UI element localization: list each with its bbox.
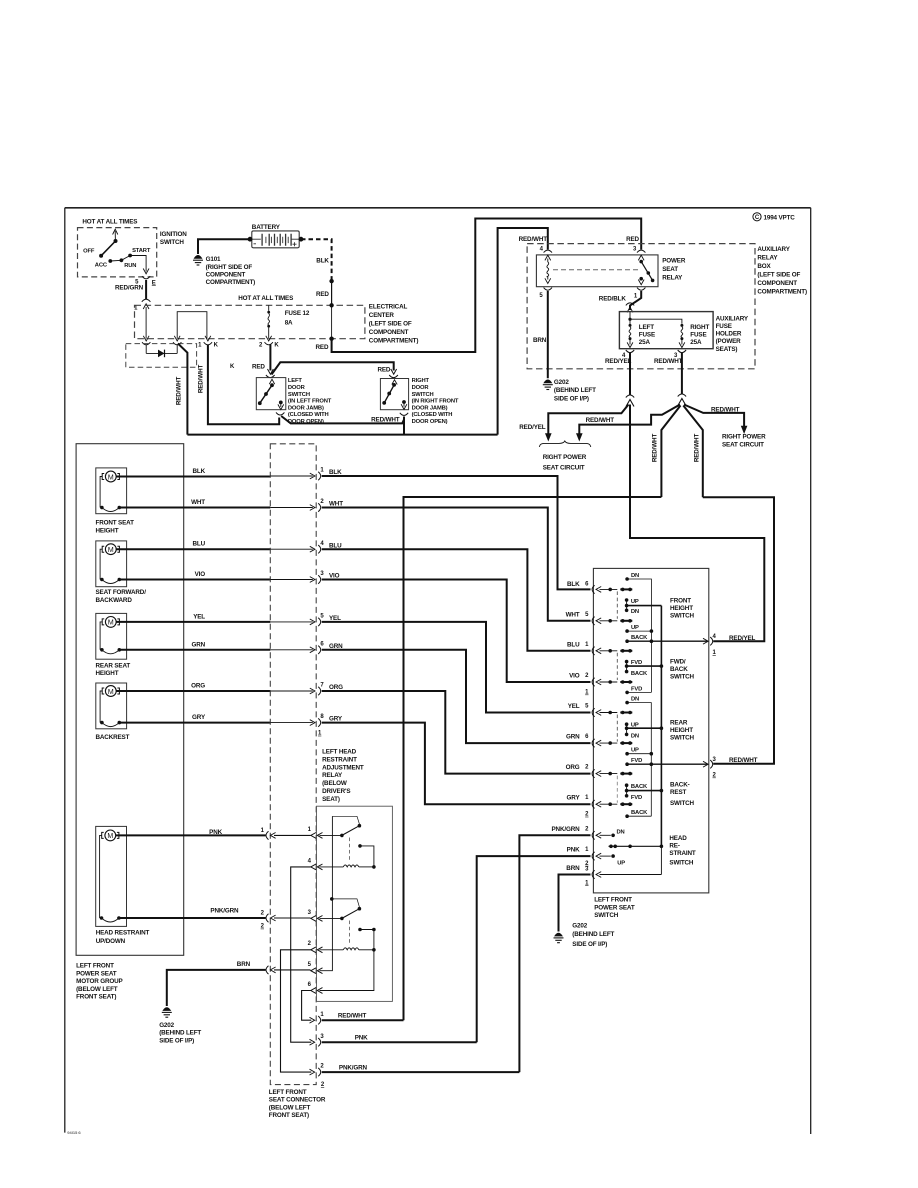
svg-text:SWITCH: SWITCH [160, 239, 185, 246]
relay pin 3 connector [308, 910, 323, 922]
connector row 7 ORG [270, 683, 590, 774]
right fuse output connector [678, 350, 686, 353]
svg-text:BACK: BACK [631, 671, 648, 677]
wire into diode module right [176, 345, 178, 354]
relay pin 2 connector [308, 941, 323, 953]
svg-text:CENTER: CENTER [369, 312, 395, 319]
svg-text:BOX: BOX [757, 263, 771, 270]
svg-text:7: 7 [320, 683, 324, 689]
svg-text:UP: UP [631, 748, 639, 754]
seat connector output pin 2 PNK/GRN [310, 1064, 520, 1089]
svg-text:E: E [152, 280, 156, 286]
EC exit connector (diode feed 2) [174, 336, 180, 341]
svg-text:LEFT HEAD: LEFT HEAD [322, 749, 357, 756]
svg-text:RED/WHT: RED/WHT [371, 416, 400, 423]
svg-text:FVD: FVD [631, 795, 642, 801]
svg-text:3: 3 [308, 910, 312, 916]
svg-text:RED/YEL: RED/YEL [519, 424, 546, 431]
svg-text:WHT: WHT [191, 499, 205, 506]
svg-text:2: 2 [585, 826, 589, 832]
svg-text:HOLDER: HOLDER [716, 331, 742, 338]
svg-text:START: START [132, 248, 151, 254]
wire BLK battery positive (dashed) [301, 239, 332, 279]
svg-text:2: 2 [261, 910, 265, 916]
svg-text:3: 3 [713, 757, 717, 763]
svg-text:LEFT FRONT: LEFT FRONT [76, 963, 114, 970]
wire RED 2K to left door switch [269, 345, 271, 371]
svg-text:M: M [108, 547, 114, 554]
switch pin 4 RED/YEL output [703, 634, 756, 656]
svg-text:UP: UP [617, 861, 625, 867]
svg-text:SIDE OF I/P): SIDE OF I/P) [572, 941, 607, 948]
backrest switch internals [617, 776, 694, 818]
wire VIO motor M2 [119, 579, 270, 581]
svg-text:SWITCH: SWITCH [412, 392, 434, 398]
svg-text:SEAT CONNECTOR: SEAT CONNECTOR [269, 1097, 326, 1104]
svg-text:(POWER: (POWER [716, 338, 742, 345]
thick feed bus front/rear [660, 606, 662, 847]
wire RED/BLK relay pin 1 to fuse holder [630, 291, 641, 310]
svg-text:4: 4 [308, 858, 312, 864]
page frame left border [64, 208, 66, 1133]
wire RED/WHT branch 3 riser [683, 406, 703, 498]
relay pin 1 connector [308, 827, 323, 839]
svg-text:GRN: GRN [566, 734, 580, 741]
svg-text:RIGHT: RIGHT [690, 324, 709, 331]
svg-text:RED: RED [377, 367, 390, 374]
svg-text:(BEHIND LEFT: (BEHIND LEFT [554, 387, 596, 394]
svg-text:GRY: GRY [567, 795, 581, 802]
svg-text:PNK/GRN: PNK/GRN [210, 908, 239, 915]
wire BLU motor M2 [116, 548, 270, 550]
diode D1 [146, 350, 177, 358]
switch pin 5 YEL [568, 703, 633, 717]
svg-text:G202: G202 [572, 922, 587, 929]
left door switch [256, 378, 286, 410]
svg-text:2: 2 [585, 765, 589, 771]
svg-text:MOTOR GROUP: MOTOR GROUP [76, 978, 123, 985]
svg-text:ACC: ACC [95, 263, 108, 269]
svg-text:FRONT SEAT): FRONT SEAT) [269, 1112, 309, 1119]
svg-text:M: M [108, 474, 114, 481]
wire RED feed riser to power seat relay pin 3 [332, 219, 642, 353]
svg-text:2: 2 [308, 941, 312, 947]
svg-text:2: 2 [320, 499, 324, 505]
svg-text:COMPARTMENT): COMPARTMENT) [206, 279, 256, 286]
svg-text:(BEHIND LEFT: (BEHIND LEFT [159, 1030, 201, 1037]
svg-text:1: 1 [308, 827, 312, 833]
svg-text:(BELOW LEFT: (BELOW LEFT [269, 1104, 311, 1111]
svg-text:2: 2 [713, 773, 717, 779]
svg-text:(RIGHT SIDE OF: (RIGHT SIDE OF [206, 264, 253, 271]
svg-text:RED/YEL: RED/YEL [729, 635, 756, 642]
svg-text:UP: UP [631, 625, 639, 631]
left front power seat switch box [593, 568, 708, 919]
connector row 5 YEL [270, 614, 590, 713]
svg-text:5: 5 [320, 614, 324, 620]
wire RED tee to right door switch [272, 362, 394, 374]
svg-text:5: 5 [585, 704, 589, 710]
ground G202 seat motors [159, 1008, 201, 1045]
svg-text:SEAT): SEAT) [322, 796, 340, 803]
switch pin 1 GRY [567, 795, 633, 818]
svg-text:6: 6 [320, 641, 324, 647]
svg-text:1: 1 [318, 731, 322, 737]
wire into diode module left [145, 345, 147, 354]
switch pin 2 PNK/GRN [552, 826, 625, 840]
wire right door switch to RED/WHT long run [403, 417, 405, 435]
wire RED/WHT branch 1 to right power seat circuit arrow [579, 405, 680, 434]
relay armature link (dashed) [553, 269, 640, 271]
svg-text:DOOR OPEN): DOOR OPEN) [412, 419, 448, 425]
svg-text:(CLOSED WITH: (CLOSED WITH [412, 412, 453, 418]
motor M4 backrest [96, 683, 130, 741]
svg-text:RED/WHT: RED/WHT [711, 406, 740, 413]
wire RED/WHT riser from pin 1 K [208, 345, 279, 425]
auxiliary relay box [527, 244, 807, 369]
svg-text:FRONT: FRONT [670, 597, 691, 604]
svg-text:4: 4 [320, 541, 324, 547]
front height switch internals [617, 573, 707, 692]
svg-text:25A: 25A [690, 339, 702, 346]
svg-text:RELAY: RELAY [757, 254, 778, 261]
svg-text:SEAT CIRCUIT: SEAT CIRCUIT [722, 441, 764, 448]
svg-text:RED/WHT: RED/WHT [654, 358, 683, 365]
svg-text:BACK: BACK [631, 784, 648, 790]
wire RED/WHT link to switch pin 3 [703, 497, 774, 764]
wire PNK motor M5 [116, 834, 266, 836]
switch pin 3 BRN [566, 846, 661, 886]
svg-text:ELECTRICAL: ELECTRICAL [369, 303, 408, 310]
svg-text:ADJUSTMENT: ADJUSTMENT [322, 764, 364, 771]
svg-text:AUXILIARY: AUXILIARY [716, 315, 749, 322]
relay pin 5 connector [308, 962, 323, 974]
svg-text:HEIGHT: HEIGHT [96, 670, 119, 677]
relay pin 1 connector [637, 288, 645, 291]
switch pin 3 RED/WHT output [703, 757, 758, 779]
svg-text:1: 1 [585, 795, 589, 801]
motor M1 front seat height [96, 468, 135, 534]
svg-text:HEIGHT: HEIGHT [670, 605, 693, 612]
switch pin 2 VIO [569, 673, 632, 696]
svg-text:DOOR JAMB): DOOR JAMB) [288, 405, 324, 411]
svg-text:OFF: OFF [83, 248, 95, 254]
connector row 1 BLK [270, 468, 590, 590]
svg-text:1: 1 [713, 650, 717, 656]
svg-text:SWITCH: SWITCH [670, 735, 695, 742]
svg-text:RED: RED [252, 364, 265, 371]
svg-text:HEIGHT: HEIGHT [96, 527, 119, 534]
svg-text:ORG: ORG [191, 683, 205, 690]
svg-text:C: C [755, 215, 760, 221]
connector PNK at seat connector left edge [261, 828, 311, 840]
svg-text:SWITCH: SWITCH [594, 912, 619, 919]
wire relay pin 6 riser to seat connector pin 1 [302, 991, 312, 1021]
svg-text:1: 1 [261, 828, 265, 834]
seat connector output pin 1 RED/WHT [310, 1012, 404, 1025]
svg-text:FVD: FVD [631, 686, 642, 692]
svg-text:RED/WHT: RED/WHT [198, 365, 205, 394]
svg-text:LEFT: LEFT [639, 324, 654, 331]
wire RED/YEL branch to right power seat circuit arrow [548, 405, 628, 434]
svg-text:SWITCH: SWITCH [670, 800, 695, 807]
svg-text:G202: G202 [159, 1022, 174, 1029]
svg-text:RED/YEL: RED/YEL [605, 358, 632, 365]
connector row 6 GRN [270, 641, 590, 743]
svg-text:VIO: VIO [195, 571, 206, 578]
svg-text:RED/WHT: RED/WHT [176, 377, 183, 406]
page frame right border [810, 208, 812, 1134]
svg-text:SIDE OF I/P): SIDE OF I/P) [159, 1037, 194, 1044]
svg-text:BACKWARD: BACKWARD [96, 597, 133, 604]
svg-text:FUSE 12: FUSE 12 [285, 310, 310, 317]
svg-text:ORG: ORG [566, 764, 580, 771]
diode module box [126, 344, 197, 368]
svg-text:DRIVER'S: DRIVER'S [322, 788, 350, 795]
wire RED/WHT right fuse down to splice connector [681, 353, 683, 395]
wire BLK motor M1 [116, 476, 270, 478]
wire GRY motor M4 [119, 722, 270, 724]
svg-text:BRN: BRN [237, 961, 251, 968]
svg-text:LEFT FRONT: LEFT FRONT [269, 1089, 307, 1096]
svg-text:RED/WHT: RED/WHT [729, 757, 758, 764]
EC exit connector pin 2 K [266, 336, 272, 341]
svg-text:RESTRAINT: RESTRAINT [322, 756, 357, 763]
svg-text:5: 5 [539, 293, 543, 299]
svg-text:1: 1 [198, 342, 202, 348]
svg-text:1: 1 [634, 293, 638, 299]
svg-text:5: 5 [308, 962, 312, 968]
svg-text:DN: DN [631, 609, 639, 615]
wire RED/WHT feed riser to power seat relay pin 4 [498, 228, 548, 435]
svg-text:1: 1 [585, 847, 589, 853]
svg-text:6: 6 [308, 982, 312, 988]
svg-text:RED/WHT: RED/WHT [693, 434, 700, 463]
svg-text:6: 6 [585, 734, 589, 740]
svg-text:FUSE: FUSE [716, 323, 732, 330]
svg-text:3: 3 [585, 867, 589, 873]
svg-text:FRONT SEAT: FRONT SEAT [96, 519, 135, 526]
svg-text:RED/WHT: RED/WHT [338, 1013, 367, 1020]
svg-text:REAR: REAR [670, 720, 688, 727]
svg-text:PNK: PNK [355, 1035, 368, 1042]
wire WHT motor M1 [119, 507, 270, 509]
left door switch bottom connector [276, 412, 284, 415]
svg-text:HEAD: HEAD [669, 835, 687, 842]
svg-text:2: 2 [585, 673, 589, 679]
svg-text:RELAY: RELAY [322, 772, 343, 779]
relay switch 2 [320, 897, 376, 950]
svg-text:UP/DOWN: UP/DOWN [96, 938, 126, 945]
svg-text:REST: REST [670, 789, 686, 796]
svg-text:3: 3 [320, 571, 324, 577]
svg-text:2: 2 [320, 1064, 324, 1070]
wire PNK riser to switch [477, 856, 591, 1042]
svg-text:4: 4 [713, 634, 717, 640]
svg-text:3: 3 [633, 247, 637, 253]
electrical center box [135, 295, 419, 344]
ground G202 switch [554, 922, 615, 948]
copyright mark [753, 213, 795, 222]
wire RED inside electrical center [331, 305, 333, 338]
wire relay pin 4 riser to seat connector pin 3 [291, 867, 312, 1042]
wire RED splice to electrical center [331, 281, 333, 305]
wire PNK/GRN riser to switch [519, 835, 590, 1072]
svg-text:M: M [107, 833, 113, 840]
wire PNK/GRN motor M5 [119, 917, 266, 919]
connector PNK/GRN at seat connector left edge [261, 910, 311, 929]
svg-text:RED: RED [316, 291, 329, 298]
ground G202 aux [543, 379, 596, 402]
inline connector C-left [626, 395, 634, 398]
svg-text:(IN RIGHT FRONT: (IN RIGHT FRONT [412, 399, 459, 405]
inline connector C-right [678, 394, 686, 397]
svg-text:DOOR: DOOR [412, 385, 430, 391]
svg-text:BATTERY: BATTERY [252, 224, 281, 231]
svg-text:RED: RED [626, 236, 639, 243]
svg-text:POWER: POWER [662, 257, 686, 264]
svg-text:SEAT: SEAT [662, 266, 678, 273]
connector row 4 VIO [270, 571, 590, 682]
svg-text:SWITCH: SWITCH [288, 392, 310, 398]
wire ORG motor M4 [116, 690, 270, 692]
ground G101 [193, 256, 255, 287]
wire RED/WHT riser from diode branch [178, 344, 188, 435]
svg-text:REAR SEAT: REAR SEAT [96, 662, 131, 669]
svg-text:4: 4 [540, 247, 544, 253]
fuse holder internal feed [629, 312, 631, 320]
svg-text:COMPONENT: COMPONENT [369, 329, 409, 336]
wire RED/WHT cross-link H1 [404, 497, 662, 1020]
switch pin 5 WHT [566, 611, 633, 625]
svg-text:M: M [108, 620, 114, 627]
svg-text:BACK: BACK [670, 666, 688, 673]
wire RED/WHT branch 4 to right power seat circuit arrow [684, 405, 744, 427]
wire left door switch to 1K run [281, 416, 404, 423]
left front seat connector box [269, 444, 326, 1119]
motor M2 seat forward/backward [96, 541, 147, 604]
svg-text:RUN: RUN [124, 263, 136, 269]
svg-text:FVD: FVD [631, 758, 642, 764]
svg-text:BRN: BRN [533, 337, 547, 344]
fuse 12 8A [267, 305, 310, 338]
svg-text:RED/WHT: RED/WHT [519, 236, 548, 243]
svg-text:FUSE: FUSE [690, 332, 706, 339]
svg-text:FUSE: FUSE [639, 332, 655, 339]
svg-text:K: K [214, 342, 219, 348]
svg-text:FRONT SEAT): FRONT SEAT) [76, 994, 116, 1001]
svg-text:SEAT FORWARD/: SEAT FORWARD/ [96, 589, 147, 596]
svg-text:AUXILIARY: AUXILIARY [757, 246, 790, 253]
svg-text:(BELOW: (BELOW [322, 780, 347, 787]
svg-text:BACKREST: BACKREST [96, 734, 130, 741]
svg-text:RIGHT POWER: RIGHT POWER [543, 454, 587, 461]
svg-text:RED/BLK: RED/BLK [599, 296, 627, 303]
wire RED/WHT long run to relay feed riser [187, 434, 497, 436]
connector row 2 WHT [270, 499, 590, 621]
wire BRN relay pin 5 to G202 [547, 291, 549, 378]
svg-text:25A: 25A [639, 339, 651, 346]
svg-text:K: K [274, 342, 279, 348]
svg-text:BLU: BLU [193, 541, 206, 548]
svg-text:SEAT CIRCUIT: SEAT CIRCUIT [543, 465, 585, 472]
relay pin 5 connector [544, 288, 552, 291]
motor M3 rear seat height [96, 613, 131, 677]
svg-text:DOOR JAMB): DOOR JAMB) [412, 405, 448, 411]
svg-text:FWD/: FWD/ [670, 659, 686, 666]
svg-text:HEAD RESTRAINT: HEAD RESTRAINT [96, 930, 150, 937]
svg-text:DN: DN [631, 697, 639, 703]
ignition switch positions ACC-RUN-START [108, 259, 112, 263]
switch pin 6 BLK [567, 581, 632, 594]
node EC bottom edge [329, 337, 333, 341]
svg-text:BACK: BACK [631, 635, 648, 641]
svg-text:SIDE OF I/P): SIDE OF I/P) [554, 395, 589, 402]
svg-text:1: 1 [585, 880, 589, 886]
switch pin 1 BLU [567, 641, 632, 655]
svg-text:BRN: BRN [566, 865, 580, 872]
svg-text:COMPARTMENT): COMPARTMENT) [369, 337, 419, 344]
left fuse output connector [626, 350, 634, 353]
right door switch [380, 379, 408, 410]
svg-text:LEFT: LEFT [288, 378, 302, 384]
svg-text:BLU: BLU [567, 641, 580, 648]
connector row 8 GRY [270, 714, 590, 804]
svg-text:2: 2 [261, 924, 265, 930]
svg-text:VIO: VIO [569, 673, 580, 680]
svg-text:6: 6 [585, 581, 589, 587]
right door switch bottom connector [400, 413, 408, 416]
svg-text:SWITCH: SWITCH [670, 613, 695, 620]
brace right power seat circuit left [539, 441, 591, 447]
fwd/back switch internals [617, 653, 694, 694]
svg-text:BLK: BLK [567, 581, 580, 588]
connector row 3 BLU [270, 541, 590, 651]
svg-text:(BEHIND LEFT: (BEHIND LEFT [572, 931, 614, 938]
svg-text:DOOR: DOOR [288, 385, 306, 391]
switch pin 6 GRN [566, 734, 632, 748]
svg-text:(CLOSED WITH: (CLOSED WITH [288, 412, 329, 418]
seat connector output pin 3 PNK [310, 1034, 477, 1047]
battery [248, 224, 304, 248]
svg-text:2: 2 [321, 1082, 325, 1088]
svg-text:RED: RED [316, 344, 329, 351]
svg-text:YEL: YEL [193, 613, 205, 620]
ignition switch U-IGN [78, 219, 188, 312]
svg-text:(IN LEFT FRONT: (IN LEFT FRONT [288, 399, 332, 405]
ignition switch arm [101, 241, 115, 256]
svg-text:8A: 8A [285, 320, 293, 327]
connector BRN at seat connector left edge [266, 966, 311, 974]
svg-text:SWITCH: SWITCH [669, 859, 694, 866]
svg-text:8: 8 [320, 714, 324, 720]
svg-text:HOT AT ALL TIMES: HOT AT ALL TIMES [82, 219, 137, 226]
svg-text:RED/WHT: RED/WHT [652, 434, 659, 463]
relay contact [639, 260, 643, 264]
wire RED/YEL left fuse down to inline connector [629, 353, 631, 396]
wire relay pin 2 riser to seat connector pin 2 [281, 950, 312, 1072]
rear height switch internals [617, 697, 707, 817]
svg-text:1: 1 [585, 690, 589, 696]
wire RED/YEL main run to switch pin 4 [630, 405, 764, 642]
svg-text:RELAY: RELAY [662, 274, 683, 281]
svg-text:IGNITION: IGNITION [160, 231, 187, 238]
left front power seat motor group box [76, 444, 184, 1001]
svg-text:BACK: BACK [631, 810, 648, 816]
power seat relay [536, 255, 685, 287]
svg-text:RE-: RE- [669, 842, 679, 849]
relay NC bus wire [320, 816, 333, 970]
